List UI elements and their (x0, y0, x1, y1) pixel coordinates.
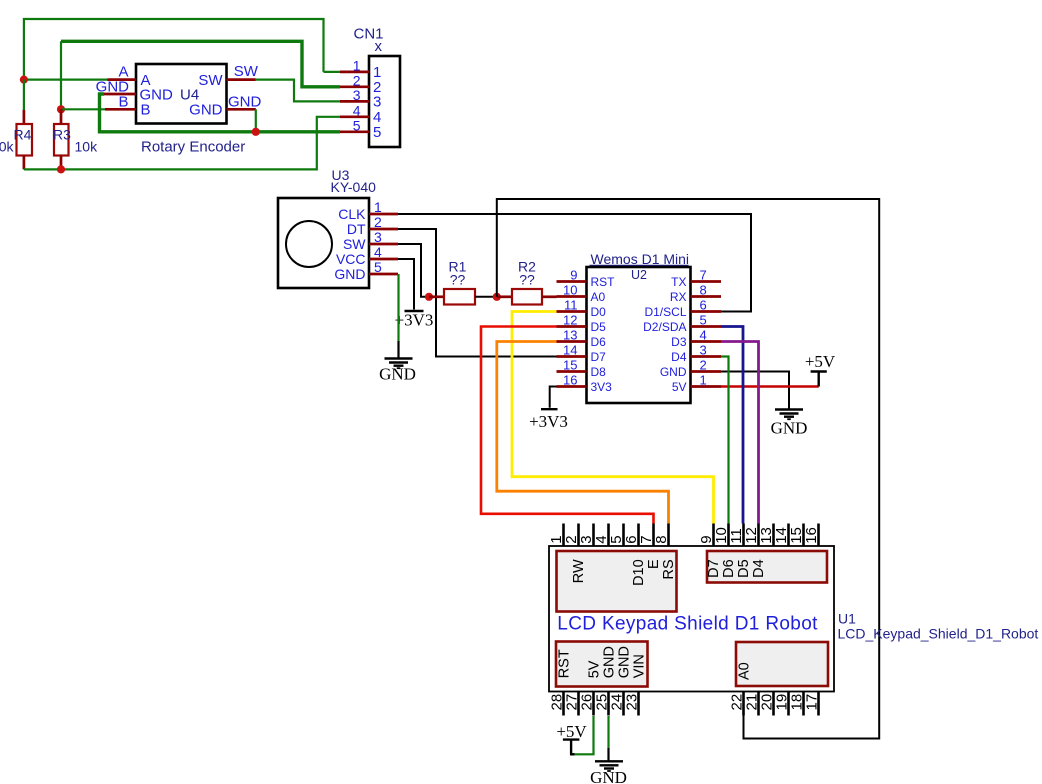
wire D5 red: U2 pin12 to shield pin 7 (481, 327, 654, 524)
wire net B: bold wire R3 to CN1 pin 2 (61, 41, 340, 87)
U1 pin 14 stub (787, 524, 790, 547)
svg-text:R4: R4 (14, 127, 32, 143)
svg-text:SW: SW (234, 63, 259, 80)
svg-text:A0: A0 (591, 290, 606, 304)
wire D0 yellow: U2 pin11 to shield pin 9 (512, 312, 714, 524)
svg-text:GND: GND (228, 93, 262, 110)
junction node bottom rail at R3 (57, 165, 65, 173)
resistor R1 left lead (429, 295, 444, 298)
power symbol +5V at shield (570, 740, 572, 755)
resistor R2 (512, 289, 542, 305)
wire SW: U3 pin3 to R1 junction (398, 244, 429, 297)
CN1 pin 5 stub (340, 130, 369, 133)
svg-text:DT: DT (347, 221, 366, 237)
wire GND: U4 left GND bold wire to CN1 pin 5 (100, 94, 341, 132)
svg-text:GND: GND (601, 646, 617, 678)
CN1 pin 2 stub (340, 85, 369, 88)
svg-text:+5V: +5V (556, 722, 587, 741)
svg-text:A0: A0 (736, 662, 752, 680)
svg-text:5V: 5V (672, 380, 687, 394)
U1 lower-right pin-label box (736, 642, 828, 686)
U1 upper-left pin-label box (557, 551, 677, 612)
U1 pin 20 stub (772, 692, 775, 716)
U1 pin 18 stub (802, 692, 805, 716)
U2 pin 6 stub (691, 310, 722, 313)
svg-text:14: 14 (563, 343, 577, 358)
svg-text:6: 6 (700, 298, 707, 313)
U1 pin 3 stub (592, 524, 595, 547)
svg-text:CLK: CLK (338, 206, 366, 222)
svg-text:??: ?? (450, 272, 466, 288)
svg-text:B: B (118, 93, 128, 110)
wire D3 purple: U2 pin4 to shield pin 12 (721, 342, 759, 524)
junction node SW at R4 (20, 76, 28, 84)
wire GND bottom rail to CN1 pin 4 (24, 117, 340, 170)
svg-text:D1/SCL: D1/SCL (644, 305, 686, 319)
svg-text:RX: RX (670, 290, 687, 304)
resistor R4 (17, 124, 33, 156)
U2 pin 16 stub (557, 385, 587, 388)
svg-text:LCD_Keypad_Shield_D1_Robot: LCD_Keypad_Shield_D1_Robot (838, 626, 1039, 642)
wire net SW: R4 top to U4 pin A and CN1 pin 1 (24, 19, 324, 80)
svg-text:SW: SW (343, 236, 366, 252)
wire GND: U2 pin2 to ground (721, 372, 789, 410)
svg-text:5: 5 (374, 259, 382, 275)
U1 pin 17 stub (817, 692, 820, 716)
junction node B at R3 (57, 105, 65, 113)
svg-text:2: 2 (700, 358, 707, 373)
U2 pin 15 stub (557, 370, 587, 373)
U1 pin 27 stub (577, 692, 580, 716)
svg-text:D8: D8 (591, 365, 607, 379)
svg-text:U1: U1 (838, 611, 856, 627)
svg-text:10: 10 (563, 283, 577, 298)
svg-text:4: 4 (353, 102, 361, 118)
U1 pin 5 stub (622, 524, 625, 547)
resistor R1 (444, 289, 475, 305)
U3 knob circle (286, 221, 332, 267)
svg-text:D5: D5 (736, 559, 752, 578)
wire net B vertical at R3 (60, 41, 62, 109)
svg-text:23: 23 (623, 694, 640, 711)
U1 pin 16 stub (817, 524, 820, 547)
svg-text:4: 4 (700, 328, 707, 343)
U2 pin 13 stub (557, 340, 587, 343)
svg-text:Wemos D1 Mini: Wemos D1 Mini (591, 251, 690, 267)
svg-text:Rotary Encoder: Rotary Encoder (141, 139, 245, 156)
junction node GND rail (252, 128, 260, 136)
ground symbol at U3 (385, 357, 413, 359)
wire A0 long net: junction up over to LCD shield pin 22 (497, 199, 879, 739)
shield U1 outline (549, 546, 834, 692)
svg-text:5V: 5V (586, 660, 602, 678)
U1 pin 24 stub (622, 692, 625, 716)
resistor R2 right lead (542, 295, 557, 298)
svg-text:GND: GND (660, 365, 687, 379)
wire GND: U3 pin5 down (397, 274, 399, 341)
CN1 pin 3 stub (340, 100, 369, 103)
svg-text:SW: SW (198, 72, 223, 89)
svg-text:E: E (646, 559, 662, 569)
U3 body (278, 198, 369, 288)
svg-text:TX: TX (671, 275, 686, 289)
wire D2/SDA blue: U2 pin5 to shield pin 11 (721, 327, 743, 524)
U1 pin 10 stub (727, 524, 730, 547)
U1 pin 6 stub (637, 524, 640, 547)
svg-text:RS: RS (661, 559, 677, 579)
svg-text:8: 8 (700, 283, 707, 298)
U3 pin 3 stub (369, 243, 398, 246)
svg-text:13: 13 (563, 328, 577, 343)
svg-text:3: 3 (353, 87, 361, 103)
svg-text:GND: GND (590, 768, 627, 784)
svg-text:5: 5 (373, 124, 381, 141)
wire R4 lower lead to bottom rail (23, 110, 26, 124)
U1 pin 13 stub (772, 524, 775, 547)
junction node SW/R1 (425, 293, 433, 301)
svg-text:x: x (375, 38, 383, 55)
svg-text:9: 9 (570, 268, 577, 283)
U2 pin 9 stub (557, 280, 587, 283)
svg-text:1: 1 (353, 57, 361, 73)
module U2 body (587, 267, 691, 403)
wire CLK: U3 pin1 to U2 D1/SCL (398, 214, 751, 312)
U1 pin 25 stub (607, 692, 610, 716)
svg-text:+3V3: +3V3 (395, 311, 434, 330)
resistor R2 left lead (497, 295, 512, 298)
resistor R4 bottom lead (23, 156, 26, 170)
U2 pin 2 stub (691, 370, 722, 373)
resistor R3 bottom lead (60, 156, 63, 170)
svg-text:D4: D4 (671, 350, 687, 364)
svg-text:KY-040: KY-040 (331, 179, 377, 195)
U2 pin 4 stub (691, 340, 722, 343)
svg-text:2: 2 (353, 72, 361, 88)
resistor R4 top lead (23, 80, 25, 110)
svg-text:5: 5 (700, 313, 707, 328)
U1 pin 15 stub (802, 524, 805, 547)
U1 pin 22 stub (742, 692, 745, 716)
wire D6 orange: U2 pin13 to shield pin 8 (497, 342, 669, 524)
U2 pin 10 stub (557, 295, 587, 298)
U2 pin 11 stub (557, 310, 587, 313)
wire GND: U4 right GND down to bold rail (255, 109, 257, 132)
svg-text:R3: R3 (53, 127, 71, 143)
svg-text:D3: D3 (671, 335, 687, 349)
U4 pin A stub (108, 78, 137, 81)
U1 pin 12 stub (757, 524, 760, 547)
U2 pin 7 stub (691, 280, 722, 283)
U3 pin 5 stub (369, 273, 398, 276)
power symbol +3V3 at U3 (405, 310, 424, 312)
svg-text:3V3: 3V3 (591, 380, 613, 394)
svg-text:D5: D5 (591, 320, 607, 334)
U2 pin 14 stub (557, 355, 587, 358)
svg-text:??: ?? (519, 272, 535, 288)
U1 pin 21 stub (757, 692, 760, 716)
svg-text:VIN: VIN (631, 654, 647, 678)
svg-text:GND: GND (189, 102, 223, 119)
svg-text:11: 11 (564, 298, 578, 313)
U1 lower-left pin-label box (556, 642, 648, 687)
ground symbol at shield (595, 760, 623, 762)
svg-text:GND: GND (379, 365, 416, 384)
svg-text:GND: GND (616, 646, 632, 678)
svg-text:RST: RST (591, 275, 616, 289)
wire +5V to shield pin 26 (574, 716, 594, 754)
svg-text:D7: D7 (706, 559, 722, 578)
U2 pin 8 stub (691, 295, 722, 298)
svg-text:D0: D0 (591, 305, 607, 319)
junction node R1/R2/A0 (493, 293, 501, 301)
wire net B: R3 to U4 pin B (61, 108, 105, 110)
svg-text:4: 4 (374, 244, 382, 260)
svg-text:7: 7 (700, 268, 707, 283)
svg-text:16: 16 (563, 373, 577, 388)
wire DT: U3 pin2 to U2 D7 (398, 229, 557, 357)
connector CN1 body (369, 56, 400, 147)
svg-text:RST: RST (556, 649, 572, 678)
wire D4 green: U2 pin3 to shield pin 10 (721, 357, 729, 524)
svg-text:U2: U2 (631, 268, 647, 282)
svg-text:15: 15 (563, 358, 577, 373)
U1 pin 19 stub (787, 692, 790, 716)
resistor R1 right lead (475, 296, 497, 298)
resistor R3 top lead (60, 109, 63, 124)
U2 pin 5 stub (691, 325, 722, 328)
svg-text:D7: D7 (591, 350, 607, 364)
svg-text:+5V: +5V (805, 352, 836, 371)
U1 pin 11 stub (742, 524, 745, 547)
U1 upper-right pin-label box (707, 551, 827, 583)
svg-text:3: 3 (374, 229, 382, 245)
svg-text:D6: D6 (721, 559, 737, 578)
U3 pin 2 stub (369, 228, 398, 231)
U4 pin GND right stub (227, 108, 256, 111)
svg-text:5: 5 (353, 117, 361, 133)
U4 pin GND left stub (103, 93, 136, 96)
svg-text:GND: GND (771, 419, 808, 438)
U3 pin 4 stub (369, 258, 398, 261)
U1 pin 8 stub (667, 524, 670, 547)
svg-text:10k: 10k (75, 139, 99, 155)
ground symbol at U2 (775, 408, 803, 410)
svg-text:B: B (141, 102, 151, 119)
svg-text:LCD Keypad Shield D1 Robot: LCD Keypad Shield D1 Robot (557, 614, 818, 635)
U1 pin 7 stub (652, 524, 655, 547)
U2 pin 3 stub (691, 355, 722, 358)
svg-text:VCC: VCC (336, 251, 366, 267)
svg-text:2: 2 (374, 214, 382, 230)
U2 pin 12 stub (557, 325, 587, 328)
U1 pin 4 stub (607, 524, 610, 547)
rotary encoder U4 body (136, 64, 227, 124)
U1 pin 2 stub (577, 524, 580, 547)
U1 pin 26 stub (592, 692, 595, 716)
svg-text:D2/SDA: D2/SDA (643, 320, 686, 334)
wire 3V3: U2 pin16 to +3V3 symbol (550, 387, 557, 408)
svg-text:12: 12 (563, 313, 577, 328)
U1 pin 28 stub (562, 692, 565, 716)
resistor R3 (54, 124, 69, 156)
svg-text:1: 1 (374, 199, 382, 215)
svg-text:GND: GND (334, 266, 365, 282)
power symbol +3V3 at U2 (541, 408, 558, 410)
svg-text:3: 3 (700, 343, 707, 358)
CN1 pin 4 stub (340, 115, 369, 118)
U1 pin 23 stub (637, 692, 640, 716)
svg-text:D6: D6 (591, 335, 607, 349)
U3 pin 1 stub (369, 213, 398, 216)
wire GND to shield pin 25 (607, 716, 609, 748)
svg-text:1: 1 (700, 373, 707, 388)
svg-text:16: 16 (803, 527, 820, 544)
U2 pin 1 stub (691, 385, 722, 388)
wire VCC: U3 pin4 to +3V3 (398, 259, 414, 310)
svg-text:D10: D10 (631, 559, 647, 586)
CN1 pin 1 stub (340, 71, 369, 74)
svg-text:17: 17 (803, 694, 820, 711)
U4 pin SW stub (227, 78, 256, 81)
power symbol +5V at U2 (818, 372, 820, 387)
svg-text:+3V3: +3V3 (529, 412, 568, 431)
U4 pin B stub (105, 108, 136, 111)
svg-text:10k: 10k (0, 139, 14, 155)
U1 pin 1 stub (562, 524, 565, 547)
svg-text:RW: RW (571, 559, 587, 583)
wire 5V: U2 pin1 to +5V (721, 385, 819, 388)
svg-text:8: 8 (653, 535, 670, 543)
U1 pin 9 stub (712, 524, 715, 547)
svg-text:D4: D4 (751, 559, 767, 578)
wire SW net: U4 SW pin to CN1 pin 3 (256, 80, 340, 102)
